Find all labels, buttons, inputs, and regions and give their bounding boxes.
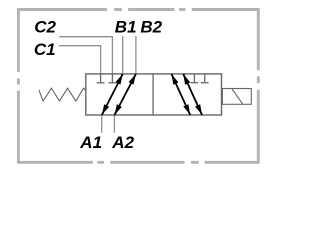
wire C1 [59,46,101,74]
wire A1 [101,115,103,133]
solenoid actuator box [222,89,251,105]
solenoid diagonal [232,89,243,105]
svg-text:B2: B2 [140,18,162,37]
phantom enclosure border, bottom edge (dash-dot) [17,161,259,164]
svg-text:C2: C2 [34,18,56,37]
phantom enclosure border, right edge (dash-dot) [257,8,260,163]
blocked port right-1 (stub + T-bar) [191,74,199,83]
blocked port right-2 (stub + T-bar) [201,74,209,83]
phantom enclosure border, left edge (dash-dot) [17,8,20,163]
wire B1 [122,36,124,74]
phantom enclosure border, top edge (dash-dot) [17,8,259,11]
wire B2 [135,36,137,74]
flow arrow crossed 1 (right box) (double-headed) [172,74,191,115]
svg-text:A1: A1 [79,133,102,152]
svg-text:B1: B1 [115,18,137,37]
return spring [39,88,86,101]
wire A2 [113,115,115,133]
blocked port C2 (stub + T-bar) [109,74,117,83]
svg-text:A2: A2 [111,133,134,152]
blocked port C1 (stub + T-bar) [97,74,105,83]
flow arrow crossed 2 (right box) (double-headed) [183,74,202,115]
valve body rectangle [86,74,222,115]
svg-text:C1: C1 [34,40,56,59]
valve position divider [152,74,154,115]
wire C2 [59,37,112,74]
flow arrow B2-A2 (left box) (double-headed) [115,74,136,115]
flow arrow B1-A1 (left box) (double-headed) [102,74,123,115]
